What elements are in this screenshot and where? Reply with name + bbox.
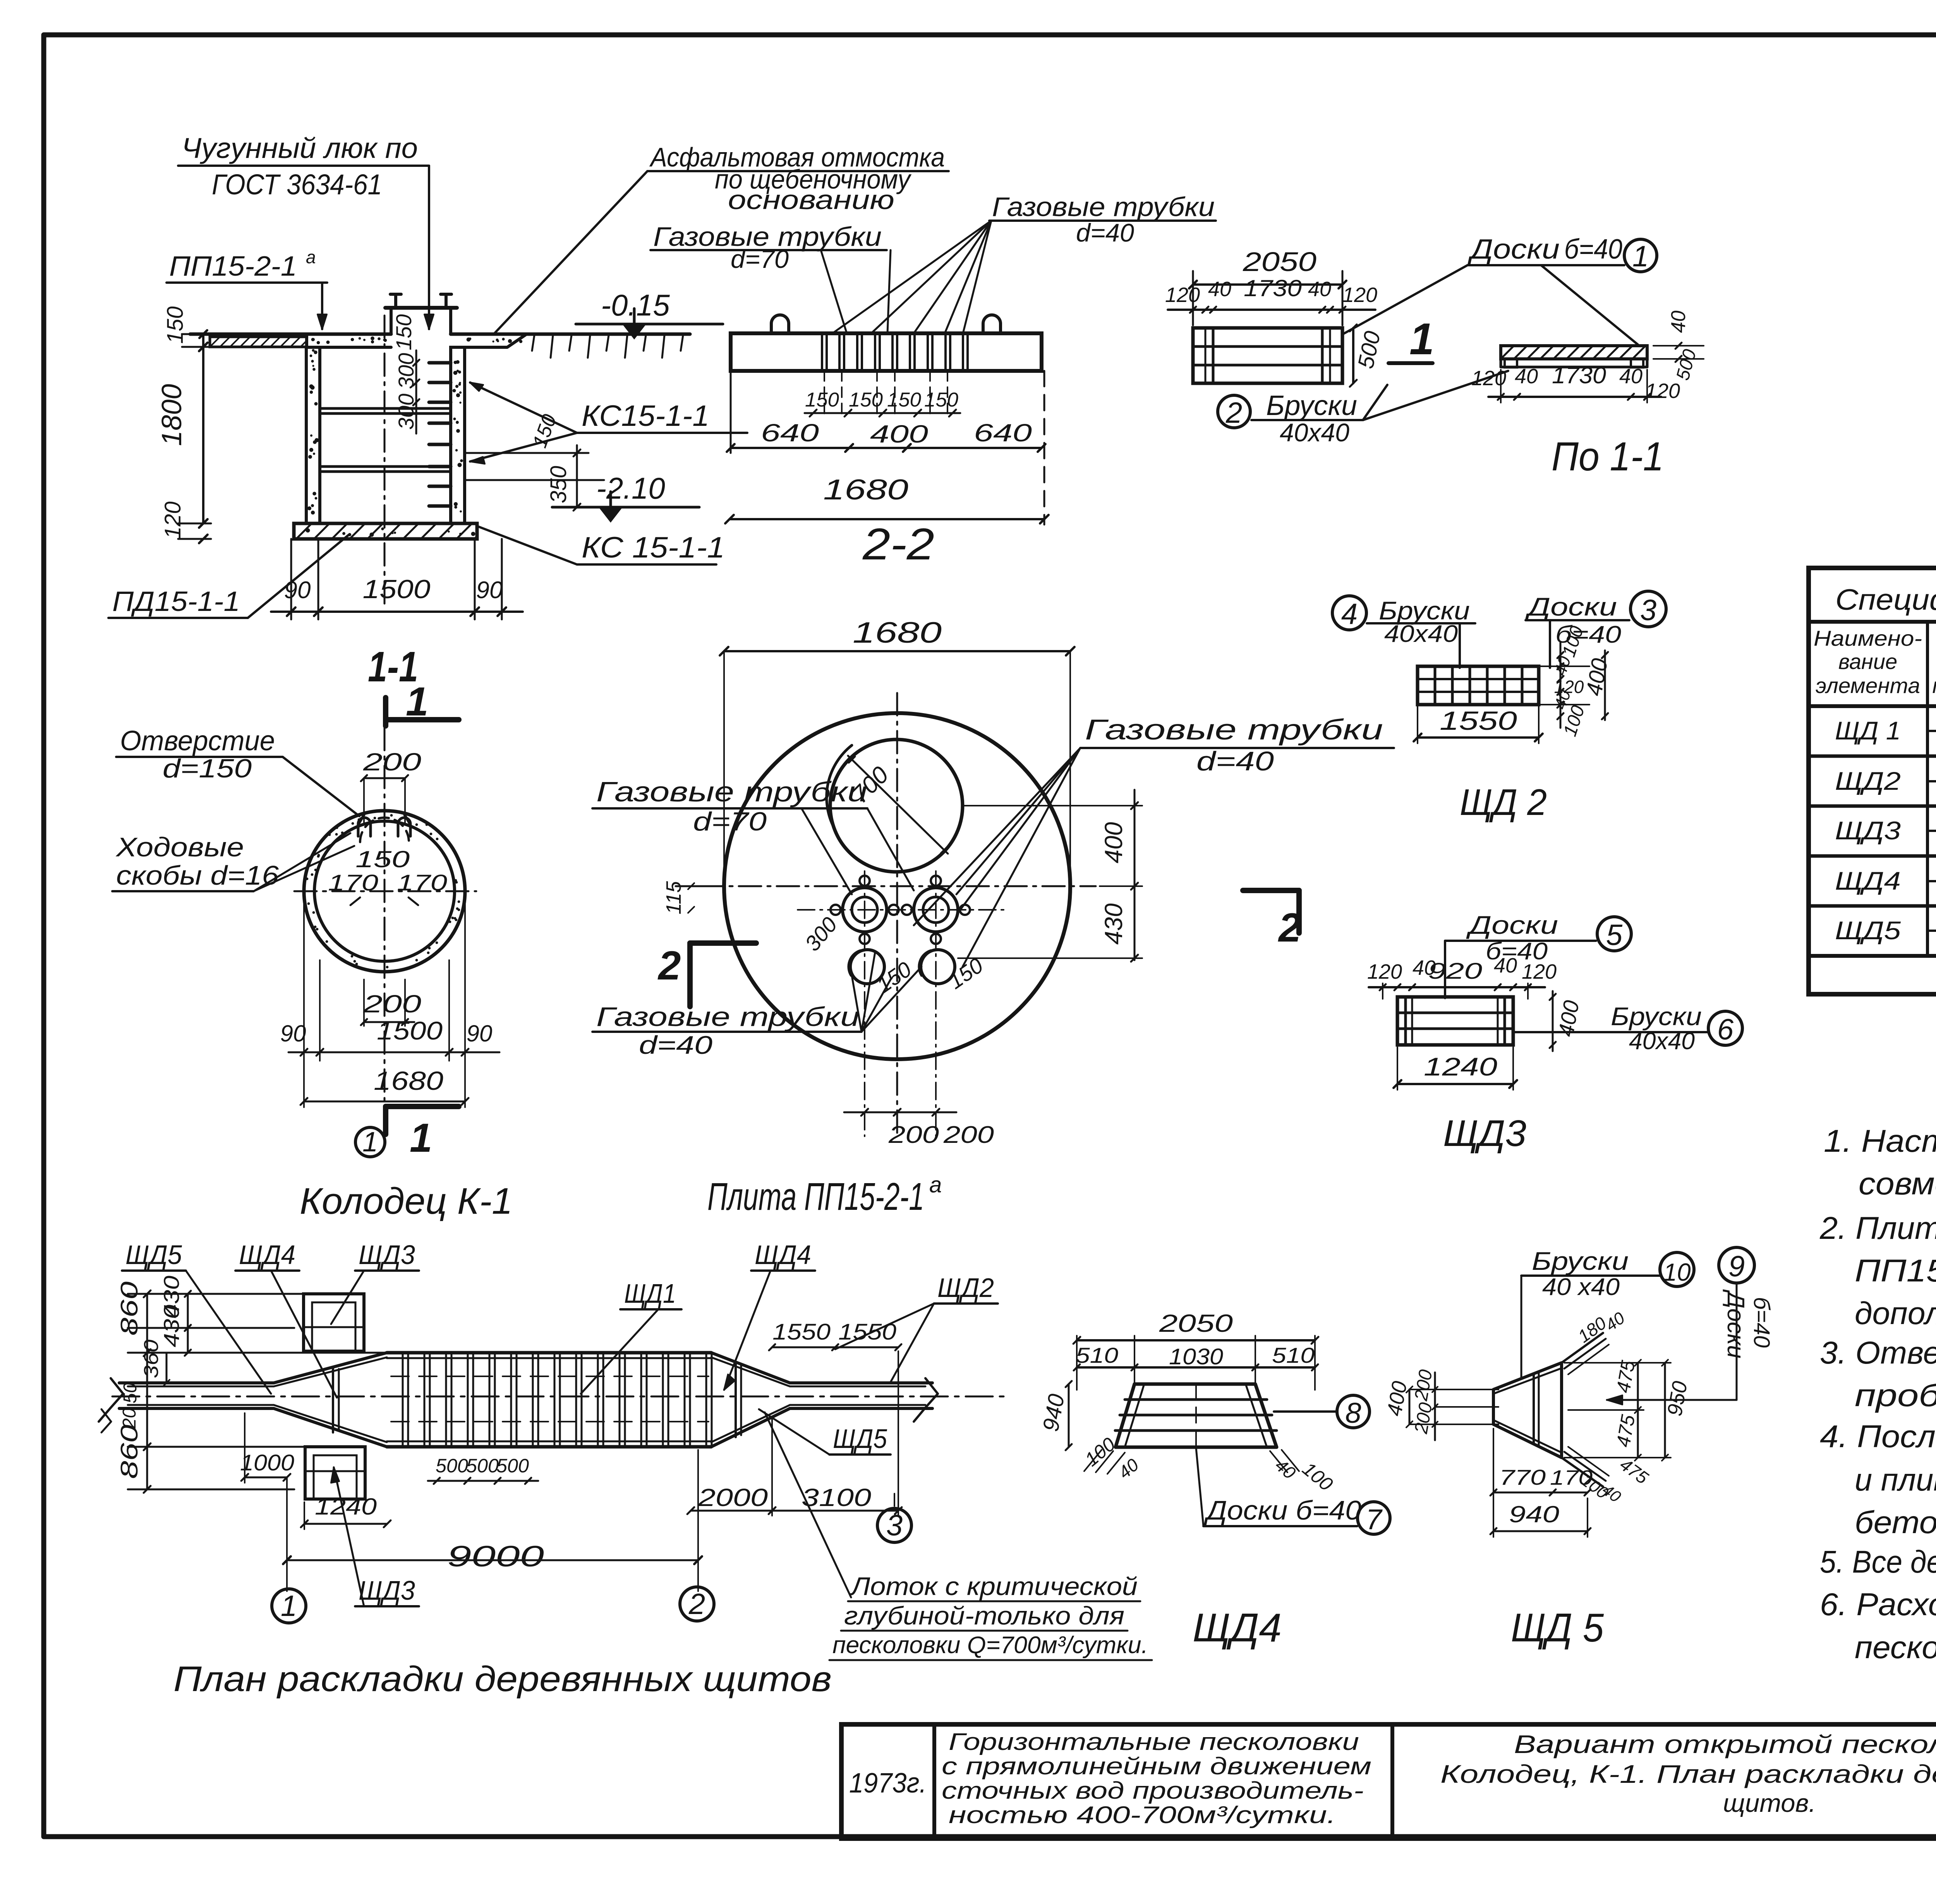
section mark 2 right: [1296, 890, 1302, 933]
svg-text:1240: 1240: [1424, 1052, 1497, 1081]
panel ЩД5: funnel shape: [1493, 1363, 1562, 1458]
panel ЩД5: bruski ends bottom right: [1562, 1458, 1603, 1487]
svg-text:150: 150: [355, 846, 410, 872]
svg-text:Колодец К-1: Колодец К-1: [300, 1180, 513, 1222]
section 2-2: precast slab: [731, 333, 1042, 371]
plan: axis circles 1 2 3: [272, 1589, 306, 1623]
plan: dims 500 500 500: [428, 1480, 538, 1482]
svg-text:Газовые трубки: Газовые трубки: [992, 192, 1215, 222]
section 1-1: ladder rungs: [429, 361, 451, 365]
svg-text:ПД15-1-1: ПД15-1-1: [112, 586, 240, 617]
plan: bottom protrusion box: [305, 1447, 365, 1499]
svg-text:150: 150: [163, 306, 188, 344]
section 1-1: bottom dims 90 1500 90: [290, 539, 292, 619]
section 1-1: ground hatch ticks right: [532, 335, 683, 358]
svg-text:40: 40: [1308, 278, 1331, 301]
panel ЩД5: right dims 475 475 950: [1637, 1363, 1639, 1458]
svg-text:860: 860: [116, 1281, 143, 1336]
plan: right break mark: [914, 1378, 938, 1422]
callout: Бруски 40х40 circle 10 (ЩД5): [1660, 1252, 1694, 1286]
section 1-1: dim 120 left: [199, 535, 208, 543]
svg-text:40: 40: [1208, 278, 1231, 301]
svg-text:песколовки: в числителе Q=400: песколовки: в числителе Q=400 м³/сутки,: [1855, 1630, 1936, 1665]
panel По 1-1: dims below 120 40 1730 40: [1488, 396, 1661, 398]
section 1-1: ring joints: [320, 407, 451, 410]
svg-text:1030: 1030: [1169, 1344, 1223, 1369]
svg-text:950: 950: [1663, 1379, 1692, 1418]
panel ЩД1: plan of boards: [1193, 328, 1342, 383]
svg-text:1550: 1550: [838, 1319, 896, 1345]
well K-1: ring stipple: [306, 814, 460, 969]
svg-text:500: 500: [466, 1455, 499, 1477]
svg-text:Наимено-: Наимено-: [1814, 626, 1922, 650]
svg-text:КС 15-1-1: КС 15-1-1: [582, 531, 725, 564]
callout: circle 9 + Доски б=40 (ЩД5): [1719, 1247, 1754, 1283]
svg-text:совместно с листами АС-4,5.: совместно с листами АС-4,5.: [1859, 1166, 1936, 1201]
table: specification of timber for 1 sand trap: [1809, 568, 1936, 994]
svg-text:d=40: d=40: [1196, 746, 1274, 776]
svg-text:ЩД3: ЩД3: [1835, 816, 1901, 845]
well K-1: top opening d=150: [358, 815, 364, 825]
svg-text:1550: 1550: [1440, 706, 1517, 736]
panel ЩД4: dim 940 left: [1068, 1384, 1070, 1447]
svg-text:6: 6: [1717, 1013, 1734, 1046]
panel ЩД5: dims 770 170: [1493, 1492, 1588, 1494]
svg-text:Плита ПП15-2-1: Плита ПП15-2-1: [707, 1175, 924, 1218]
plan: dims 2000 3100: [691, 1510, 898, 1512]
panel ЩД3: dim 400 right: [1552, 991, 1554, 1051]
plan: wide body outer: [387, 1351, 711, 1355]
svg-text:170: 170: [397, 870, 447, 895]
plan: centre axis: [112, 1396, 1007, 1398]
section 2-2: dims 150x4: [805, 412, 960, 414]
svg-text:ЩД5: ЩД5: [1835, 916, 1901, 945]
svg-text:170: 170: [328, 870, 378, 895]
callout: circle 8 (ЩД4): [1337, 1395, 1370, 1428]
svg-text:2050: 2050: [1159, 1309, 1233, 1337]
svg-text:d=150: d=150: [163, 754, 252, 783]
svg-text:50: 50: [120, 1383, 141, 1403]
svg-text:40: 40: [1114, 1455, 1143, 1483]
plan: left transition funnel: [274, 1353, 387, 1383]
svg-text:поз.: поз.: [1933, 673, 1936, 698]
svg-text:d=40: d=40: [1076, 218, 1134, 247]
svg-text:500: 500: [1353, 329, 1385, 371]
svg-text:360: 360: [140, 1340, 163, 1378]
svg-text:2-2: 2-2: [862, 520, 934, 569]
svg-text:ЩД3: ЩД3: [359, 1240, 415, 1270]
svg-text:ностью 400-700м³/сутки.: ностью 400-700м³/сутки.: [949, 1802, 1336, 1829]
well K-1: axis circle 1: [355, 1127, 385, 1157]
svg-text:475: 475: [1616, 1454, 1652, 1488]
section 1-1: centre axis: [384, 316, 386, 604]
svg-text:10: 10: [1663, 1258, 1691, 1286]
svg-text:Вариант открытой песколовки.: Вариант открытой песколовки.: [1514, 1730, 1936, 1758]
svg-text:3: 3: [1640, 594, 1656, 627]
plan: dim 9000: [287, 1559, 698, 1561]
svg-text:9000: 9000: [447, 1540, 544, 1573]
panel ЩД3: dim 1240: [1397, 1083, 1513, 1085]
plan: body internal dashed board lines: [391, 1376, 709, 1377]
svg-text:350: 350: [546, 466, 571, 503]
svg-text:План раскладки деревянных щито: План раскладки деревянных щитов: [173, 1659, 832, 1699]
svg-text:90: 90: [284, 577, 311, 604]
plate: flanged gas holes d=70: [843, 888, 887, 932]
well K-1: outer ring: [304, 811, 465, 972]
panel По 1-1: end bars: [1505, 359, 1517, 367]
svg-text:40: 40: [1515, 365, 1538, 388]
section 1-1: dim 150 left top: [202, 334, 204, 347]
svg-text:Газовые трубки: Газовые трубки: [596, 1002, 860, 1032]
svg-text:ЩД4: ЩД4: [1835, 866, 1901, 895]
svg-text:2: 2: [657, 943, 681, 988]
svg-text:40х40: 40х40: [1280, 418, 1349, 447]
plan: left dims 360 50: [166, 1353, 168, 1383]
svg-text:1680: 1680: [823, 473, 908, 506]
well K-1: ladder staples: [358, 818, 371, 836]
svg-text:150: 150: [849, 389, 883, 411]
svg-text:ЩД5: ЩД5: [125, 1240, 182, 1270]
plan: vertical ribs: [403, 1353, 712, 1447]
svg-text:1680: 1680: [853, 616, 942, 649]
well K-1: section mark 1 bottom: [386, 1104, 459, 1109]
section 1-1: inner vertical guide lines: [319, 347, 321, 523]
svg-text:основанию: основанию: [728, 185, 894, 215]
svg-text:7: 7: [1366, 1503, 1383, 1535]
svg-text:200: 200: [888, 1122, 939, 1148]
svg-text:3100: 3100: [802, 1484, 872, 1511]
section 2-2: lifting loops: [771, 315, 789, 334]
svg-text:500: 500: [1672, 347, 1700, 382]
callout: Бруски 40х40 circle 6 (ЩД3): [1708, 1011, 1742, 1045]
svg-text:вание: вание: [1838, 649, 1897, 674]
svg-text:1550: 1550: [772, 1319, 831, 1345]
svg-text:3. Отверстие в кольце КС 15-1-: 3. Отверстие в кольце КС 15-1-1 d = 150: [1820, 1335, 1936, 1371]
svg-text:Газовые трубки: Газовые трубки: [1085, 714, 1383, 746]
panel ЩД4: dim 2050: [1077, 1339, 1315, 1341]
svg-text:Бруски: Бруски: [1532, 1247, 1629, 1275]
svg-text:пробить по месту.: пробить по месту.: [1855, 1378, 1936, 1413]
callout: Доски б=40 circle 7 (ЩД4): [1358, 1502, 1390, 1534]
svg-text:475: 475: [1612, 1413, 1639, 1449]
svg-text:-2.10: -2.10: [596, 471, 665, 505]
svg-text:40: 40: [1667, 310, 1690, 333]
section 1-1: dim 1800 left: [202, 347, 204, 523]
panel ЩД3: boards: [1397, 997, 1513, 1045]
svg-text:2. Плита ПП15-2-1а отличается: 2. Плита ПП15-2-1а отличается от плиты: [1819, 1210, 1936, 1246]
svg-text:Газовые трубки: Газовые трубки: [596, 777, 867, 808]
svg-text:500: 500: [496, 1455, 529, 1477]
plan: left inlet channel: [119, 1381, 274, 1384]
svg-text:300: 300: [394, 394, 418, 430]
panel ЩД5: left dims 400 200 200: [1409, 1389, 1411, 1424]
panel ЩД4: trapezoid: [1116, 1384, 1277, 1447]
svg-text:1: 1: [362, 1127, 378, 1158]
svg-text:9: 9: [1728, 1250, 1745, 1283]
plan: left dim extension lines: [128, 1293, 304, 1295]
svg-text:475: 475: [1612, 1359, 1639, 1395]
svg-text:Горизонтальные песколовки: Горизонтальные песколовки: [949, 1729, 1359, 1755]
callout: Доски б=40 circle 5 (ЩД3): [1597, 917, 1631, 951]
svg-text:200: 200: [363, 748, 422, 776]
svg-text:510: 510: [1272, 1343, 1315, 1367]
svg-text:1: 1: [1409, 314, 1434, 364]
panel ЩД1: dim 2050: [1193, 283, 1342, 286]
svg-text:200: 200: [943, 1122, 994, 1148]
section 1-1: ground surface line: [190, 333, 391, 336]
svg-text:1000: 1000: [240, 1450, 294, 1475]
svg-text:глубиной-только для: глубиной-только для: [844, 1601, 1124, 1630]
panel ЩД2: right dim chain 100 40 120 40 100 + 400: [1539, 666, 1589, 667]
svg-text:430: 430: [1100, 903, 1128, 945]
svg-text:ЩД4: ЩД4: [1193, 1606, 1282, 1650]
panel ЩД3: dims above 120 40 920 40 120: [1369, 986, 1545, 988]
svg-text:500: 500: [436, 1455, 468, 1477]
svg-text:1: 1: [1632, 240, 1649, 273]
plate: dim 1680 top: [724, 650, 1070, 652]
plate: hole centre dash lines: [864, 871, 865, 1136]
svg-text:400: 400: [1581, 657, 1613, 698]
svg-text:90: 90: [467, 1021, 493, 1046]
svg-text:песколовки Q=700м³/сутки.: песколовки Q=700м³/сутки.: [832, 1632, 1148, 1659]
section 2-2: tube centre dashed extensions: [824, 371, 825, 416]
svg-text:400: 400: [870, 420, 929, 448]
plate: right dims 400 430: [1134, 790, 1136, 960]
svg-text:ПП15-2-1 по серии 3.900-2 нали: ПП15-2-1 по серии 3.900-2 наличием: [1855, 1253, 1936, 1288]
svg-text:Колодец, К-1. План раскладки д: Колодец, К-1. План раскладки деревянных: [1440, 1760, 1936, 1788]
svg-text:4. После пропуска труб в кольц: 4. После пропуска труб в кольце КС 15-1-…: [1820, 1419, 1936, 1454]
svg-text:1500: 1500: [363, 575, 431, 604]
svg-text:ЩД2: ЩД2: [1835, 767, 1901, 795]
svg-text:120: 120: [1367, 960, 1402, 983]
svg-text:400: 400: [1100, 822, 1128, 863]
svg-text:920: 920: [1428, 959, 1482, 984]
svg-text:б=40: б=40: [1555, 621, 1621, 648]
svg-text:бетоном М-100 на мелком заполн: бетоном М-100 на мелком заполнителе.: [1855, 1505, 1936, 1540]
svg-text:4: 4: [1341, 598, 1358, 631]
svg-text:d=40: d=40: [639, 1031, 712, 1059]
svg-text:По 1-1: По 1-1: [1552, 434, 1664, 479]
svg-text:8: 8: [1345, 1397, 1361, 1429]
svg-text:Чугунный люк по: Чугунный люк по: [182, 132, 418, 164]
plan: dim 1240 bottom: [304, 1523, 387, 1525]
svg-text:и плите ПП 15-2-1а отверстия з: и плите ПП 15-2-1а отверстия заделать: [1855, 1461, 1936, 1497]
callout: Доски б=40 circle 3 (ЩД2): [1630, 591, 1666, 627]
callout: Бруски 40х40 circle 4 (ЩД2): [1332, 596, 1366, 630]
svg-text:Лоток с критической: Лоток с критической: [850, 1572, 1138, 1600]
svg-text:200: 200: [1411, 1368, 1436, 1403]
section 1-1: left wall of rings (stippled): [306, 347, 320, 523]
svg-text:2: 2: [688, 1588, 705, 1621]
svg-text:5. Все деревянные элементы ант: 5. Все деревянные элементы антисептирова…: [1820, 1544, 1936, 1580]
svg-text:ПП15-2-1: ПП15-2-1: [169, 251, 297, 282]
svg-text:2050: 2050: [1243, 247, 1316, 277]
svg-text:5: 5: [1606, 919, 1623, 952]
svg-text:6. Расход лесоматериалов указа: 6. Расход лесоматериалов указан для: [1820, 1587, 1936, 1622]
panel ЩД4: dims 510 1030 510: [1077, 1366, 1315, 1369]
svg-text:КС15-1-1: КС15-1-1: [582, 400, 709, 432]
svg-text:2: 2: [1225, 396, 1242, 429]
svg-text:150: 150: [924, 389, 958, 411]
section 1-1: right wall of rings (stippled): [451, 347, 465, 523]
plan: right outlet channel: [790, 1381, 932, 1384]
svg-text:Доски: Доски: [1467, 234, 1560, 265]
svg-text:150: 150: [872, 957, 916, 997]
svg-text:а: а: [306, 247, 316, 267]
svg-text:1730: 1730: [1244, 275, 1302, 301]
section 1-1: top slab right part / apron: [451, 334, 527, 347]
panel ЩД1: dim 500: [1352, 328, 1354, 383]
panel По 1-1: top boards with hatch: [1501, 346, 1647, 359]
svg-text:дополнительных отверстий с при: дополнительных отверстий с привязкой.: [1855, 1296, 1936, 1331]
section 1-1: top slab left part with stipple: [307, 334, 391, 347]
svg-text:120: 120: [1165, 283, 1200, 307]
section 1-1: dim 350: [576, 445, 578, 507]
plate ПП15-2-1а: big circle: [724, 713, 1070, 1059]
svg-text:1. Настоящий чертёж расстатрив: 1. Настоящий чертёж расстатривать: [1824, 1124, 1936, 1159]
svg-text:1: 1: [281, 1590, 297, 1623]
plate: centre axes: [701, 885, 1096, 887]
panel ЩД5: dim 940: [1493, 1530, 1588, 1532]
svg-text:2: 2: [1278, 905, 1301, 950]
svg-text:ЩД 5: ЩД 5: [1511, 1606, 1604, 1650]
svg-text:сточных вод производитель-: сточных вод производитель-: [942, 1777, 1364, 1804]
plan: right transition funnel: [711, 1353, 790, 1383]
svg-text:200: 200: [363, 990, 422, 1018]
table2 column lines: [1926, 622, 1929, 956]
table2 data rows: [1927, 730, 1936, 732]
svg-text:ЩД3: ЩД3: [359, 1575, 415, 1606]
callout: Бруски 40х40 with circle 2: [1218, 395, 1250, 428]
plan: dim 1000: [245, 1477, 287, 1479]
svg-text:120: 120: [160, 501, 185, 539]
svg-text:1: 1: [410, 1115, 432, 1161]
panel ЩД2: grid of bars: [1418, 666, 1539, 705]
plate: bottom dims 200 200: [844, 1112, 956, 1113]
svg-text:510: 510: [1076, 1343, 1118, 1367]
panel ЩД2: dim 1550: [1418, 736, 1539, 739]
section 2-2: gas tube openings: [822, 333, 968, 371]
svg-text:150: 150: [887, 389, 921, 411]
svg-text:Доски: Доски: [1524, 592, 1617, 621]
plan: left break mark: [99, 1378, 123, 1422]
section 1-1: left paving slab (hatched): [210, 337, 307, 347]
svg-text:Спецификация лесоматериалов на: Спецификация лесоматериалов на 1 песколо…: [1835, 583, 1936, 616]
svg-text:1800: 1800: [156, 384, 187, 446]
svg-text:770: 770: [1499, 1465, 1546, 1489]
svg-text:200: 200: [1411, 1401, 1436, 1436]
svg-text:ЩД1: ЩД1: [624, 1278, 676, 1309]
svg-text:430: 430: [159, 1305, 184, 1347]
plan: left dim chain outer: [146, 1294, 148, 1489]
svg-text:ЩД 1: ЩД 1: [1835, 716, 1901, 745]
svg-text:300: 300: [800, 912, 842, 955]
title block frame: [841, 1724, 1936, 1839]
svg-text:б=40: б=40: [1564, 234, 1622, 265]
well K-1: dim 1680: [304, 1101, 465, 1103]
svg-text:90: 90: [280, 1021, 306, 1046]
well K-1: dims 90 1500 90: [288, 1051, 499, 1053]
svg-text:1500: 1500: [377, 1016, 443, 1045]
svg-text:40: 40: [1619, 365, 1643, 388]
svg-text:ГОСТ 3634-61: ГОСТ 3634-61: [212, 168, 382, 201]
section 1-1: rung spacing dims 150 300 300: [415, 350, 417, 434]
plan: dims 1550 1550: [772, 1347, 898, 1348]
svg-text:640: 640: [761, 419, 819, 447]
plan: top protrusion box ЩД3: [304, 1294, 364, 1351]
well K-1: section mark 1 top: [383, 698, 388, 726]
svg-text:1: 1: [406, 679, 428, 724]
svg-text:ЩД4: ЩД4: [239, 1240, 295, 1270]
panel ЩД1: dims 120 40 1730 40 120: [1168, 309, 1375, 311]
well K-1: centre cross lines: [294, 890, 476, 892]
svg-text:Ходовые: Ходовые: [115, 832, 244, 862]
plan: wide body inner lines: [387, 1357, 711, 1359]
svg-text:ЩД5: ЩД5: [833, 1424, 887, 1454]
svg-text:Отверстие: Отверстие: [120, 726, 275, 756]
svg-text:400: 400: [1383, 1379, 1412, 1418]
section mark 2 left: [687, 943, 693, 1007]
svg-text:d=70: d=70: [693, 807, 767, 836]
svg-text:120: 120: [1645, 379, 1680, 403]
svg-text:Бруски: Бруски: [1611, 1002, 1702, 1031]
svg-text:150: 150: [805, 389, 839, 411]
svg-text:150: 150: [391, 314, 416, 350]
section 1-1: manhole neck: [390, 308, 393, 334]
svg-text:скобы d=16: скобы d=16: [116, 860, 279, 890]
svg-text:940: 940: [1509, 1501, 1559, 1527]
svg-text:ЩД 2: ЩД 2: [1460, 782, 1547, 823]
section 2-2: dims 640 400 640: [731, 447, 1042, 449]
plate: manhole circle d=700 double: [830, 739, 963, 872]
panel ЩД5: bruski ends top right: [1562, 1333, 1603, 1363]
svg-text:Доски: Доски: [1466, 911, 1558, 939]
svg-text:100: 100: [1298, 1458, 1337, 1496]
svg-text:1973г.: 1973г.: [849, 1768, 927, 1799]
svg-text:1730: 1730: [1552, 362, 1606, 388]
plan: left dim chain inner 430 430: [187, 1294, 189, 1353]
well K-1: inner ring: [314, 821, 455, 961]
svg-text:940: 940: [1038, 1392, 1069, 1434]
svg-text:860: 860: [116, 1425, 143, 1479]
svg-text:ЩД3: ЩД3: [1443, 1113, 1526, 1154]
plate: diagonal dim 700 inside manhole: [848, 756, 948, 854]
svg-text:а: а: [929, 1172, 942, 1197]
svg-text:170: 170: [1550, 1466, 1593, 1489]
svg-text:40х40: 40х40: [1384, 621, 1458, 647]
svg-text:ЩД4: ЩД4: [755, 1240, 811, 1270]
svg-text:3: 3: [886, 1509, 903, 1542]
svg-text:Доски б=40: Доски б=40: [1203, 1495, 1361, 1525]
svg-text:640: 640: [974, 419, 1032, 447]
svg-text:элемента: элемента: [1816, 673, 1920, 698]
svg-text:120: 120: [1342, 283, 1377, 307]
svg-text:1680: 1680: [374, 1066, 443, 1096]
svg-text:40 х40: 40 х40: [1542, 1274, 1620, 1300]
svg-text:1240: 1240: [315, 1494, 377, 1520]
svg-text:б=40: б=40: [1486, 938, 1548, 965]
svg-text:ЩД2: ЩД2: [937, 1273, 994, 1303]
svg-text:2000: 2000: [698, 1484, 768, 1511]
section 2-2: dim 1680: [729, 518, 1044, 520]
svg-text:с прямолинейным движением: с прямолинейным движением: [942, 1753, 1371, 1780]
plate: gas holes d=40 bottom: [850, 950, 884, 984]
svg-text:Бруски: Бруски: [1266, 390, 1357, 421]
svg-text:б=40: б=40: [1749, 1297, 1774, 1348]
section 1-1: bottom slab (hatched): [294, 523, 477, 539]
svg-text:90: 90: [476, 577, 503, 604]
svg-text:щитов.: щитов.: [1723, 1789, 1816, 1817]
